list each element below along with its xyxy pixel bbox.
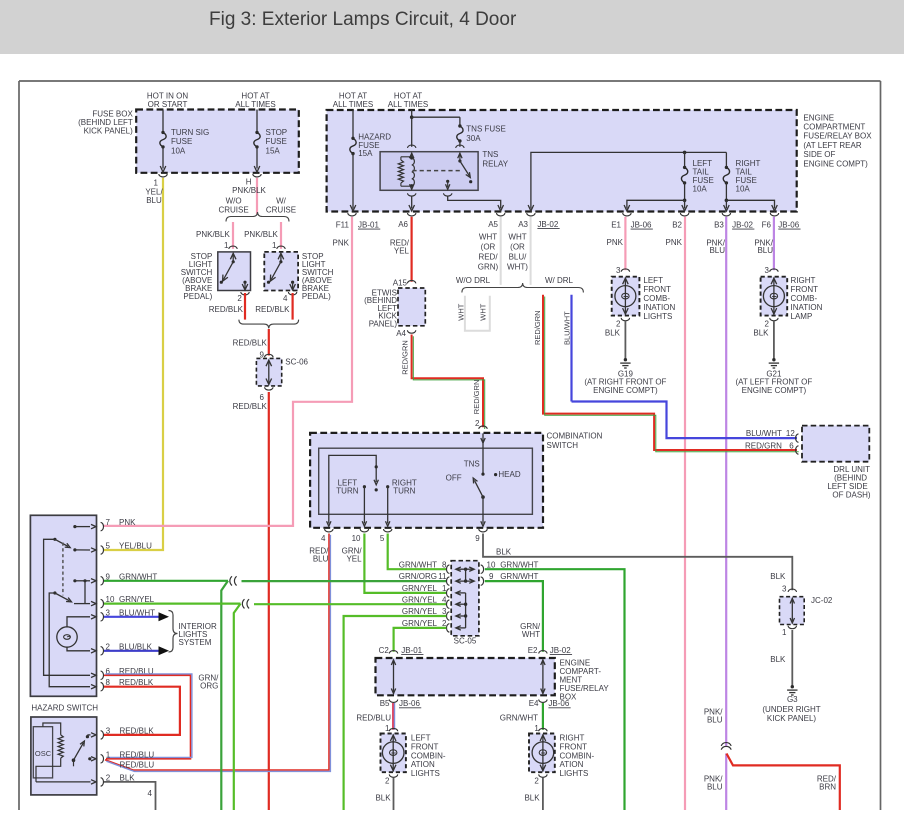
svg-text:FRONT: FRONT bbox=[560, 742, 588, 751]
wire RED/BLK pin 8 to hazard switch pin 3 bbox=[104, 687, 180, 735]
jumper WHT loop (w/o DRL) bbox=[457, 296, 490, 331]
SC-05 pin 11 bbox=[399, 572, 450, 585]
connector F11 JB-01 bbox=[336, 213, 380, 230]
DRL unit pin 6 bbox=[745, 441, 798, 454]
svg-text:E2: E2 bbox=[528, 646, 538, 655]
wire PNK/BLK fuse box pin H to stop light switch split bbox=[232, 178, 266, 214]
connector E2 JB-02 bbox=[528, 646, 572, 655]
fuse TNS FUSE 30A bbox=[457, 124, 506, 147]
connector E1 JB-06 bbox=[611, 213, 653, 230]
svg-text:HEAD: HEAD bbox=[498, 470, 520, 479]
svg-text:FUSE/RELAY BOX: FUSE/RELAY BOX bbox=[803, 132, 872, 141]
svg-text:WHT: WHT bbox=[479, 233, 497, 242]
turn signal switch arm 1 and bus to pin 6 bbox=[44, 538, 96, 678]
connector A4 ETWIS bbox=[396, 329, 416, 338]
svg-text:JB-01: JB-01 bbox=[401, 646, 422, 655]
svg-text:FRONT: FRONT bbox=[791, 285, 819, 294]
svg-text:GRN/YEL: GRN/YEL bbox=[402, 619, 438, 628]
svg-text:ALL TIMES: ALL TIMES bbox=[388, 100, 428, 109]
svg-text:SWITCH: SWITCH bbox=[547, 441, 579, 450]
svg-text:RED/GRN: RED/GRN bbox=[472, 380, 481, 415]
wire to TNS relay coil and TNS fuse bbox=[410, 110, 460, 147]
svg-text:RED/BLK: RED/BLK bbox=[233, 339, 268, 348]
fuse STOP FUSE 15A bbox=[254, 110, 287, 173]
combination switch pin 5 bbox=[380, 529, 392, 543]
svg-text:E4: E4 bbox=[529, 699, 539, 708]
lamp RIGHT FRONT COMBINATION LAMP bbox=[761, 266, 823, 328]
SC-05 pin 3 bbox=[402, 607, 450, 620]
turn signal switch pin 5 contact bbox=[73, 542, 152, 555]
svg-text:7: 7 bbox=[106, 518, 111, 527]
svg-text:W/ DRL: W/ DRL bbox=[545, 276, 574, 285]
svg-text:(UNDER RIGHT: (UNDER RIGHT bbox=[762, 705, 820, 714]
label W/ CRUISE bbox=[266, 197, 296, 215]
turn signal switch pin 8 bbox=[101, 678, 154, 691]
svg-text:BRN: BRN bbox=[819, 782, 836, 791]
svg-text:1: 1 bbox=[782, 628, 787, 637]
svg-text:1: 1 bbox=[106, 750, 111, 759]
combination switch turn signal contacts bbox=[327, 455, 417, 526]
svg-text:LIGHTS: LIGHTS bbox=[643, 312, 672, 321]
wire BLK combination switch pin 9 to JC-02 pin 3 bbox=[483, 534, 792, 591]
wire RED/BLK join to splice SC-06 bbox=[233, 329, 269, 356]
label W/O DRL bbox=[456, 276, 491, 285]
svg-text:2: 2 bbox=[616, 320, 621, 329]
connector B3 JB-02 bbox=[714, 213, 754, 230]
svg-text:RED/BLK: RED/BLK bbox=[209, 305, 244, 314]
svg-text:YEL: YEL bbox=[346, 555, 362, 564]
svg-text:LIGHTS: LIGHTS bbox=[560, 769, 589, 778]
node HOT IN ON OR START bbox=[147, 92, 188, 110]
svg-text:TNS: TNS bbox=[482, 150, 498, 159]
svg-text:1: 1 bbox=[154, 179, 159, 188]
svg-text:A6: A6 bbox=[398, 220, 408, 229]
svg-text:9: 9 bbox=[489, 572, 494, 581]
svg-text:BLK: BLK bbox=[496, 548, 512, 557]
wire BLU/WHT pin 3 to interior lights system bbox=[104, 612, 169, 621]
svg-text:W/O: W/O bbox=[226, 197, 242, 206]
svg-text:JB-06: JB-06 bbox=[778, 221, 799, 230]
svg-text:SC-06: SC-06 bbox=[285, 358, 308, 367]
wire RED/BLU pin 6 to hazard switch pin 1 bbox=[104, 674, 192, 759]
connector F6 JB-06 bbox=[762, 213, 801, 230]
svg-text:STOP: STOP bbox=[266, 128, 288, 137]
turn signal switch mechanical link bbox=[62, 543, 64, 596]
svg-text:ENGINE: ENGINE bbox=[803, 113, 834, 122]
svg-text:6: 6 bbox=[789, 441, 794, 450]
fuse HAZARD FUSE 15A bbox=[350, 110, 391, 211]
wire RED/GRN (w/ DRL) to DRL unit pin 6 bbox=[533, 295, 799, 452]
label W/O CRUISE bbox=[218, 197, 248, 215]
svg-text:COMPARTMENT: COMPARTMENT bbox=[803, 123, 865, 132]
wire BLK right lamp to ground G21 bbox=[753, 321, 774, 358]
wire BLK left bottom lamp down off page bbox=[375, 778, 393, 811]
svg-text:FUSE: FUSE bbox=[171, 137, 192, 146]
svg-text:GRN): GRN) bbox=[478, 263, 499, 272]
svg-text:RELAY: RELAY bbox=[482, 160, 508, 169]
svg-text:YEL: YEL bbox=[394, 246, 410, 255]
wire RED/BLU hazard pin 1 to combination switch pin 4 bbox=[120, 761, 155, 770]
svg-text:B2: B2 bbox=[672, 221, 682, 230]
svg-text:FUSE: FUSE bbox=[266, 137, 287, 146]
SC-05 pin 8 bbox=[399, 560, 450, 573]
wire WHT A5 down bbox=[478, 217, 501, 285]
svg-text:G3: G3 bbox=[787, 695, 798, 704]
svg-text:TURN: TURN bbox=[393, 487, 415, 496]
svg-text:WHT: WHT bbox=[508, 233, 526, 242]
svg-text:ORG: ORG bbox=[200, 681, 218, 690]
svg-text:11: 11 bbox=[438, 572, 447, 581]
svg-text:BLU: BLU bbox=[707, 782, 723, 791]
svg-text:ENGINE COMPT): ENGINE COMPT) bbox=[803, 159, 868, 168]
turn signal switch pin 6 bbox=[101, 667, 154, 680]
svg-text:OF DASH): OF DASH) bbox=[832, 490, 871, 499]
svg-text:Fig 3: Exterior Lamps Circuit,: Fig 3: Exterior Lamps Circuit, 4 Door bbox=[209, 9, 517, 30]
wire PNK/BLK to stop light switch 2 (w/ cruise) bbox=[244, 222, 281, 249]
wire PNK/BLK to stop light switch 1 (w/o cruise) bbox=[196, 222, 233, 249]
svg-text:3: 3 bbox=[442, 607, 447, 616]
svg-text:RIGHT: RIGHT bbox=[791, 276, 816, 285]
hazard switch pin 2 bbox=[101, 773, 136, 786]
svg-text:4: 4 bbox=[283, 294, 288, 303]
svg-text:2: 2 bbox=[765, 320, 770, 329]
ground G19 (at right front of engine compt) bbox=[584, 358, 666, 395]
svg-text:RED/BLU: RED/BLU bbox=[120, 761, 155, 770]
svg-text:15A: 15A bbox=[266, 146, 281, 155]
svg-text:10: 10 bbox=[352, 534, 361, 543]
svg-text:KICK PANEL): KICK PANEL) bbox=[84, 127, 134, 136]
svg-text:YEL/BLU: YEL/BLU bbox=[119, 542, 152, 551]
svg-text:2: 2 bbox=[534, 776, 539, 785]
svg-text:A5: A5 bbox=[488, 220, 498, 229]
svg-text:BLU: BLU bbox=[757, 246, 773, 255]
hazard switch pin 2 line bbox=[36, 780, 96, 784]
svg-text:BLU/WHT: BLU/WHT bbox=[746, 429, 782, 438]
svg-text:3: 3 bbox=[782, 584, 787, 593]
svg-text:4: 4 bbox=[148, 789, 153, 798]
wire BLU/BLK pin 2 to interior lights system bbox=[104, 646, 169, 655]
turn signal switch illumination lamp bbox=[57, 615, 96, 653]
svg-text:LEFT: LEFT bbox=[411, 734, 431, 743]
ground G3 (under right kick panel) bbox=[762, 685, 820, 723]
wire GRN/YEL pin 10 to splice and SC-05 pin 4 bbox=[104, 599, 446, 810]
wire BLK hazard pin 2 down off page bbox=[104, 782, 156, 810]
turn signal switch arm 2 and bus to pin 8 bbox=[49, 591, 96, 689]
wire BLU/WHT (w/ DRL) to DRL unit pin 12 bbox=[563, 295, 798, 438]
svg-text:3: 3 bbox=[616, 266, 621, 275]
svg-text:3: 3 bbox=[765, 266, 770, 275]
svg-text:PNK/BLK: PNK/BLK bbox=[232, 186, 266, 195]
svg-text:F6: F6 bbox=[762, 221, 772, 230]
SC-05 pin 9 bbox=[481, 572, 539, 585]
turn signal switch pin 10 contact bbox=[74, 595, 155, 608]
svg-text:GRN/YEL: GRN/YEL bbox=[402, 595, 438, 604]
wire GRN/YEL combination switch pin 10 to SC-05 pin 1 bbox=[342, 534, 447, 593]
svg-text:PNK/BLK: PNK/BLK bbox=[196, 230, 230, 239]
svg-text:CRUISE: CRUISE bbox=[266, 206, 296, 215]
connector A6 bbox=[398, 213, 416, 229]
svg-text:JB-06: JB-06 bbox=[548, 699, 569, 708]
fuse LEFT TAIL FUSE 10A bbox=[681, 152, 713, 200]
svg-text:(AT LEFT FRONT OF: (AT LEFT FRONT OF bbox=[736, 377, 813, 386]
svg-text:10: 10 bbox=[487, 560, 496, 569]
svg-text:1: 1 bbox=[224, 241, 229, 250]
svg-text:COMBINATION: COMBINATION bbox=[547, 432, 603, 441]
fuse box pin 1 bbox=[154, 174, 168, 188]
svg-text:2: 2 bbox=[385, 776, 390, 785]
wire PNK B2 down off page bbox=[666, 217, 685, 810]
svg-text:TNS FUSE: TNS FUSE bbox=[466, 125, 506, 134]
svg-text:OFF: OFF bbox=[446, 474, 462, 483]
hazard switch pin 1 contact bbox=[88, 757, 96, 761]
svg-text:15A: 15A bbox=[358, 149, 373, 158]
svg-text:HAZARD SWITCH: HAZARD SWITCH bbox=[31, 704, 98, 713]
wire PNK/BLU below inline connector off page bbox=[704, 708, 726, 810]
svg-text:GRN/ORG: GRN/ORG bbox=[399, 572, 437, 581]
lamp LEFT FRONT COMBINATION LIGHTS (bottom) bbox=[381, 724, 446, 785]
svg-text:INATION: INATION bbox=[643, 303, 675, 312]
wire GRN/WHT SC-05 pin 10 down off page bbox=[485, 569, 625, 810]
ground G21 (at left front of engine compt) bbox=[736, 358, 813, 395]
svg-text:TURN: TURN bbox=[336, 487, 358, 496]
wire GRN/WHT SC-05 pin 3 down off page bbox=[344, 616, 447, 810]
bottom box pass-through C2 to B5 bbox=[391, 660, 395, 694]
stop light switch SW2 (above brake pedal, w/ cruise) bbox=[264, 241, 333, 301]
svg-text:F11: F11 bbox=[336, 221, 350, 230]
wire GRN/YEL SC-05 pin 2 to C2 bbox=[394, 628, 447, 652]
svg-text:JB-02: JB-02 bbox=[550, 646, 571, 655]
svg-text:B5: B5 bbox=[380, 699, 390, 708]
svg-text:A4: A4 bbox=[396, 329, 406, 338]
stop light switch SW1 pin 2 bbox=[237, 292, 249, 303]
connector E4 JB-06 bbox=[529, 699, 571, 708]
svg-text:BLK: BLK bbox=[524, 793, 540, 802]
wire YEL/BLU fuse box pin 1 to turn signal switch pin 5 bbox=[104, 178, 163, 550]
svg-text:2: 2 bbox=[237, 294, 242, 303]
inline connector on PNK/BLU wire bbox=[721, 743, 731, 750]
svg-text:CRUISE: CRUISE bbox=[218, 206, 248, 215]
wire GRN/WHT E4 to right front combination lights pin 1 bbox=[500, 703, 543, 730]
svg-text:10A: 10A bbox=[171, 146, 186, 155]
lamp RIGHT FRONT COMBINATION LIGHTS (bottom) bbox=[529, 724, 595, 785]
svg-text:4: 4 bbox=[442, 595, 447, 604]
svg-text:PEDAL): PEDAL) bbox=[302, 292, 331, 301]
svg-text:(OR: (OR bbox=[510, 243, 525, 252]
svg-text:6: 6 bbox=[260, 393, 265, 402]
wire PNK F11 to turn signal switch pin 7 bbox=[104, 217, 352, 526]
bottom box pass-through E2 to E4 bbox=[541, 660, 545, 694]
combination switch TNS/OFF/HEAD switch bbox=[446, 434, 521, 527]
wire GRN/WHT pin 9 to splice and SC-05 pin 11 bbox=[104, 576, 446, 810]
svg-text:ALL TIMES: ALL TIMES bbox=[333, 100, 373, 109]
svg-text:E1: E1 bbox=[611, 221, 621, 230]
svg-text:1: 1 bbox=[272, 241, 277, 250]
svg-text:JB-06: JB-06 bbox=[631, 221, 652, 230]
svg-text:8: 8 bbox=[442, 560, 447, 569]
svg-text:RED/GRN: RED/GRN bbox=[533, 310, 542, 345]
connector A3 JB-02 bbox=[518, 213, 559, 229]
wire RED/BLK from stop light switch SW1 pin 2 bbox=[209, 293, 245, 320]
svg-text:B3: B3 bbox=[714, 221, 724, 230]
svg-text:WHT): WHT) bbox=[507, 263, 528, 272]
svg-text:BLK: BLK bbox=[770, 572, 786, 581]
module ETWIS (behind left kick panel) bbox=[364, 288, 425, 329]
svg-text:LAMP: LAMP bbox=[791, 312, 813, 321]
wire WHT A3 down bbox=[507, 217, 531, 285]
svg-text:FRONT: FRONT bbox=[411, 742, 439, 751]
svg-text:RED/BLU: RED/BLU bbox=[356, 714, 391, 723]
split brace for stop light switches bbox=[226, 212, 289, 222]
node HOT AT ALL TIMES (hazard fuse) bbox=[333, 92, 373, 110]
svg-text:WHT: WHT bbox=[479, 303, 488, 320]
wire RED/BLK from SC-06 pin 6 down off page bbox=[233, 392, 269, 810]
options brace (DRL) bbox=[462, 283, 584, 293]
DRL unit pin 12 bbox=[746, 429, 799, 442]
splice connector SC-05 bbox=[451, 561, 479, 646]
fuse box (behind left kick panel) bbox=[78, 110, 299, 173]
combination switch pin 4 bbox=[321, 529, 333, 543]
svg-text:WHT: WHT bbox=[457, 303, 466, 320]
svg-text:FRONT: FRONT bbox=[643, 285, 671, 294]
svg-text:A3: A3 bbox=[518, 220, 528, 229]
svg-text:PEDAL): PEDAL) bbox=[183, 292, 212, 301]
wire BLK JC-02 pin 1 to ground G3 bbox=[770, 630, 792, 685]
combination switch pin 2 bbox=[475, 419, 487, 429]
connector A15 ETWIS bbox=[393, 278, 416, 287]
svg-text:BLU: BLU bbox=[707, 715, 723, 724]
wire BLK right bottom lamp down off page bbox=[524, 778, 542, 811]
lamp LEFT FRONT COMBINATION LIGHTS bbox=[612, 266, 676, 328]
svg-text:(AT RIGHT FRONT OF: (AT RIGHT FRONT OF bbox=[584, 377, 666, 386]
label HAZARD SWITCH bbox=[31, 704, 98, 713]
wire RED/BLK from stop light switch SW2 pin 4 bbox=[255, 293, 292, 320]
svg-text:RED/: RED/ bbox=[478, 253, 498, 262]
svg-text:1: 1 bbox=[534, 724, 539, 733]
svg-text:10A: 10A bbox=[736, 185, 751, 194]
switch COMBINATION SWITCH bbox=[310, 432, 602, 528]
svg-text:KICK PANEL): KICK PANEL) bbox=[767, 714, 817, 723]
svg-text:3: 3 bbox=[106, 726, 111, 735]
svg-text:ALL TIMES: ALL TIMES bbox=[235, 100, 275, 109]
svg-text:GRN/WHT: GRN/WHT bbox=[399, 560, 437, 569]
svg-text:PNK: PNK bbox=[119, 518, 136, 527]
svg-text:TNS: TNS bbox=[464, 460, 480, 469]
stop light switch SW1 (above brake pedal) bbox=[181, 241, 251, 301]
svg-text:ATION: ATION bbox=[560, 760, 584, 769]
stop light switch SW2 pin 4 bbox=[283, 292, 297, 303]
svg-text:JB-06: JB-06 bbox=[399, 699, 420, 708]
svg-text:GRN/WHT: GRN/WHT bbox=[500, 714, 538, 723]
fuse RIGHT TAIL FUSE 10A bbox=[723, 152, 760, 200]
wire left tail fuse to E1 and B2 bbox=[624, 199, 687, 212]
connector C2 JB-01 bbox=[379, 646, 424, 655]
svg-text:PANEL): PANEL) bbox=[369, 320, 398, 329]
wire GRN/WHT SC-05 pin 9 to E2 bbox=[485, 581, 543, 652]
SC-05 pin 4 bbox=[402, 595, 450, 608]
turn signal switch pin 9 contact bbox=[73, 572, 157, 603]
svg-text:RED/BLK: RED/BLK bbox=[233, 402, 268, 411]
svg-text:JB-02: JB-02 bbox=[537, 220, 558, 229]
title bar bbox=[0, 0, 904, 54]
connector JC-02 bbox=[770, 572, 833, 637]
connector B2 bbox=[672, 213, 689, 230]
hazard switch pin 1 bbox=[101, 750, 155, 763]
svg-text:W/O DRL: W/O DRL bbox=[456, 276, 491, 285]
svg-text:5: 5 bbox=[106, 542, 111, 551]
svg-text:BLK: BLK bbox=[605, 328, 621, 337]
turn signal switch pin 7 contact bbox=[73, 518, 136, 531]
wire RED/BLU combination switch pin 4 to hazard switch pin 1 bbox=[105, 534, 330, 772]
svg-text:JC-02: JC-02 bbox=[811, 596, 833, 605]
combination switch pin 10 bbox=[352, 529, 369, 543]
fuse box pin H bbox=[246, 174, 261, 187]
svg-text:ENGINE COMPT): ENGINE COMPT) bbox=[593, 386, 658, 395]
wire RED/BRN branch off page bbox=[727, 754, 840, 811]
wire right tail fuse to B3 and F6 bbox=[724, 199, 778, 212]
svg-text:BLU/: BLU/ bbox=[509, 253, 528, 262]
svg-text:SC-05: SC-05 bbox=[454, 637, 477, 646]
svg-text:GRN/WHT: GRN/WHT bbox=[500, 572, 538, 581]
join brace of RED/BLK wires bbox=[239, 320, 299, 329]
SC-05 pin 1 bbox=[402, 584, 450, 597]
svg-text:SYSTEM: SYSTEM bbox=[179, 638, 212, 647]
splice connector SC-06 bbox=[256, 351, 308, 403]
svg-text:GRN/YEL: GRN/YEL bbox=[402, 607, 438, 616]
wire BLK left lamp to ground G19 bbox=[605, 321, 626, 358]
SC-05 row 11-9 link bbox=[456, 579, 474, 583]
connector B5 JB-06 bbox=[380, 699, 422, 708]
relay TNS RELAY bbox=[380, 145, 509, 190]
wire RED/GRN ETWIS A4 to combination switch pin 2 bbox=[400, 335, 484, 430]
svg-text:2: 2 bbox=[442, 619, 447, 628]
wire tail fuse feed to A3 bbox=[528, 151, 726, 211]
wire GRN/WHT combination switch pin 5 to SC-05 pin 8 bbox=[388, 534, 447, 570]
svg-text:PNK: PNK bbox=[333, 238, 350, 247]
svg-text:JB-02: JB-02 bbox=[732, 221, 753, 230]
svg-text:BLU: BLU bbox=[709, 246, 725, 255]
engine compartment fuse/relay box (top) bbox=[327, 110, 873, 212]
wire RED/BLU B5 to left front combination lights pin 1 bbox=[356, 703, 394, 730]
svg-text:TURN SIG: TURN SIG bbox=[171, 128, 209, 137]
oscillator OSC bbox=[33, 727, 52, 778]
module DRL UNIT (behind left side of dash) bbox=[802, 426, 871, 500]
svg-text:(OR: (OR bbox=[481, 243, 496, 252]
svg-text:GRN/WHT: GRN/WHT bbox=[500, 560, 538, 569]
svg-text:4: 4 bbox=[321, 534, 326, 543]
svg-text:RED/BLU: RED/BLU bbox=[120, 750, 155, 759]
svg-text:RIGHT: RIGHT bbox=[560, 734, 585, 743]
svg-text:RED/BLK: RED/BLK bbox=[255, 305, 290, 314]
svg-text:PNK: PNK bbox=[666, 238, 683, 247]
svg-text:BLK: BLK bbox=[753, 328, 769, 337]
SC-05 pin 2 bbox=[402, 619, 450, 632]
svg-text:LEFT: LEFT bbox=[643, 276, 663, 285]
svg-text:1: 1 bbox=[442, 584, 447, 593]
node HOT AT ALL TIMES (stop fuse) bbox=[235, 92, 275, 110]
wire PNK/BLU B3 down to inline connector bbox=[706, 217, 726, 746]
svg-text:LIGHTS: LIGHTS bbox=[411, 769, 440, 778]
svg-text:PNK: PNK bbox=[607, 238, 624, 247]
svg-text:RED/BLK: RED/BLK bbox=[120, 726, 155, 735]
SC-05 row 8-10 link bbox=[456, 567, 474, 581]
svg-text:INATION: INATION bbox=[791, 303, 823, 312]
svg-text:30A: 30A bbox=[466, 134, 481, 143]
svg-text:OR START: OR START bbox=[148, 100, 188, 109]
fuse TURN SIG FUSE 10A bbox=[160, 110, 209, 173]
hazard switch arm bbox=[72, 733, 96, 767]
svg-text:COMB-: COMB- bbox=[791, 294, 818, 303]
svg-text:BLU/WHT: BLU/WHT bbox=[563, 311, 572, 345]
